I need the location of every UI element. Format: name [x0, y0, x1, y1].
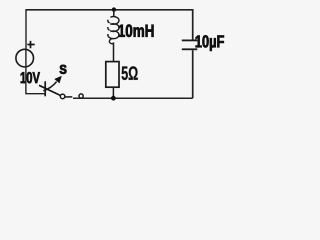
wire left (source branch upper) [25, 9, 27, 49]
label 5 ohm [122, 66, 138, 80]
wire stub after terminal 1 [65, 96, 72, 98]
wire stub coil to resistor [113, 43, 115, 61]
switch S fixed post [44, 81, 46, 96]
voltage source V1 circle [16, 49, 34, 67]
label 10V [21, 72, 40, 83]
wire left (source branch lower) [26, 67, 46, 94]
inductor L1 stub top [113, 10, 115, 17]
inductor L1 coil loop 1 [108, 17, 119, 25]
voltage source internal wire [25, 49, 27, 67]
label S [60, 65, 67, 74]
coil left gap patches [105, 16, 110, 19]
switch terminal circle 1 [60, 94, 65, 99]
inductor L1 coil loop 3 [108, 31, 119, 39]
resistor R1 box [106, 62, 119, 88]
wire bottom [73, 97, 193, 99]
switch closing arrow arc [43, 82, 56, 91]
label 10uF [196, 35, 224, 51]
wire right lower [192, 50, 194, 98]
inductor L1 coil loop 2 [108, 24, 119, 32]
wire stub resistor to bottom [112, 87, 114, 98]
label 10mH [119, 25, 154, 37]
junction node bottom [111, 96, 116, 101]
wire right upper [192, 9, 194, 40]
plus sign [27, 41, 34, 48]
junction node top [112, 7, 116, 11]
capacitor C1 bottom plate [182, 48, 198, 50]
capacitor C1 top plate [182, 40, 198, 42]
inductor L1 bottom hook [109, 39, 113, 44]
switch terminal circle 2 [79, 94, 83, 98]
switch arrowhead [54, 76, 62, 84]
switch S blade [39, 85, 61, 95]
wire top [26, 9, 193, 11]
